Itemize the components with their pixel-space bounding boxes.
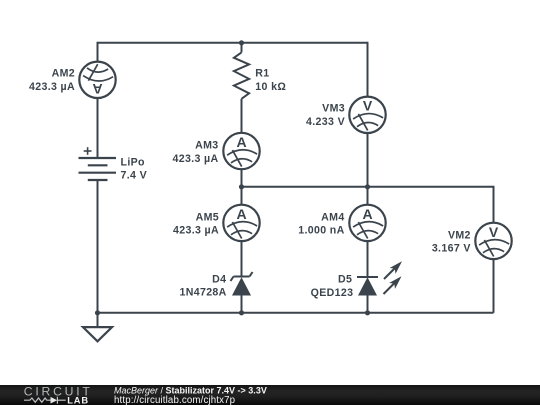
wire AM5 top lead — [241, 187, 243, 205]
svg-text:7.4 V: 7.4 V — [121, 170, 148, 182]
svg-text:423.3 µA: 423.3 µA — [173, 225, 219, 237]
svg-text:V: V — [363, 98, 373, 114]
svg-text:10 kΩ: 10 kΩ — [255, 81, 286, 93]
svg-text:A: A — [362, 206, 372, 222]
ground — [83, 313, 112, 342]
LED D5 QED123 — [311, 261, 402, 299]
battery V1 LiPo — [79, 147, 148, 182]
node AM3 bottom junction — [239, 184, 244, 189]
node R1 top junction — [239, 40, 244, 45]
wire left drop to AM2 — [97, 42, 99, 62]
svg-text:1.000 nA: 1.000 nA — [298, 225, 344, 237]
wire AM2 to battery — [97, 98, 99, 158]
voltmeter VM2 — [432, 223, 512, 259]
ammeter AM3 — [172, 133, 259, 169]
svg-text:AM5: AM5 — [196, 211, 219, 223]
svg-text:423.3 µA: 423.3 µA — [29, 81, 75, 93]
svg-text:3.167 V: 3.167 V — [432, 242, 471, 254]
svg-text:D5: D5 — [338, 274, 352, 286]
wire AM3 to mid rail — [241, 169, 243, 187]
svg-text:VM2: VM2 — [448, 229, 471, 241]
wire AM4 to D5 — [367, 241, 369, 277]
svg-text:AM3: AM3 — [195, 140, 218, 152]
CircuitLab logo schematic: wire resistor diode — [24, 397, 66, 404]
wire top rail from AM2 to VM3 branch — [98, 42, 368, 44]
wire AM4 top lead — [367, 187, 369, 205]
svg-text:423.3 µA: 423.3 µA — [172, 153, 218, 165]
svg-text:QED123: QED123 — [311, 287, 354, 299]
svg-text:LiPo: LiPo — [121, 157, 146, 169]
svg-text:VM3: VM3 — [322, 103, 345, 115]
node VM3 bottom junction — [365, 184, 370, 189]
svg-text:A: A — [236, 134, 246, 150]
svg-text:MacBerger / Stabilizator 7.4V: MacBerger / Stabilizator 7.4V -> 3.3V — [114, 385, 267, 395]
wire VM2 to bottom rail — [493, 259, 495, 313]
svg-text:V: V — [489, 224, 499, 240]
footer bar — [0, 385, 540, 405]
svg-text:1N4728A: 1N4728A — [179, 286, 226, 298]
wire mid rail — [242, 186, 494, 188]
wire R1 top lead — [241, 43, 243, 53]
wire VM3 drop from top rail — [367, 42, 369, 97]
svg-text:A: A — [236, 206, 246, 222]
svg-text:D4: D4 — [212, 273, 226, 285]
resistor R1 10 kOhm — [234, 52, 286, 98]
wire mid rail corner down to VM2 — [493, 186, 495, 223]
svg-text:4.233 V: 4.233 V — [306, 116, 345, 128]
ammeter AM2 — [29, 62, 116, 98]
wire bottom rail — [98, 312, 494, 314]
wire AM5 to D4 — [241, 241, 243, 277]
node ground junction — [95, 310, 100, 315]
svg-text:LAB: LAB — [67, 395, 89, 405]
ammeter AM4 — [298, 205, 385, 241]
svg-text:http://circuitlab.com/cjhtx7p: http://circuitlab.com/cjhtx7p — [114, 395, 235, 405]
node D4 bottom junction — [239, 310, 244, 315]
wire D5 to bottom rail — [367, 296, 369, 313]
wire battery to ground rail — [97, 180, 99, 313]
svg-text:A: A — [92, 81, 102, 97]
zener diode D4 1N4728A — [179, 272, 252, 298]
wire R1 to AM3 — [241, 99, 243, 133]
wire D4 to bottom rail — [241, 296, 243, 313]
svg-text:AM4: AM4 — [321, 211, 344, 223]
voltmeter VM3 — [306, 97, 386, 133]
ammeter AM5 — [173, 205, 260, 241]
wire VM3 to mid rail — [367, 133, 369, 187]
svg-text:R1: R1 — [255, 67, 269, 79]
svg-text:AM2: AM2 — [52, 68, 75, 80]
node D5 bottom junction — [365, 310, 370, 315]
